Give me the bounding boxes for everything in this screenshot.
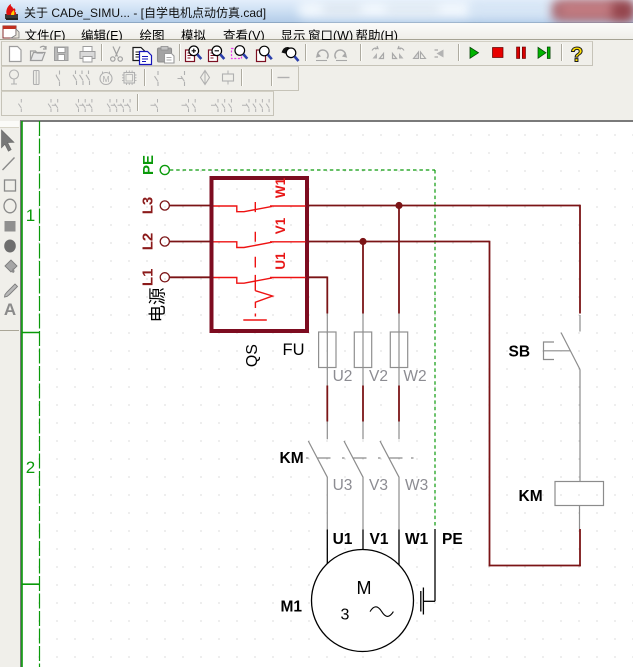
wire SB drop [579, 205, 581, 314]
wire coil branch drop [489, 241, 491, 567]
toolbar button: rotate right [393, 46, 405, 59]
palette: filled ellipse tool [4, 240, 16, 253]
wire fuse V to contact [362, 386, 364, 422]
wire L3 left [170, 205, 581, 567]
row3 contact icons [18, 99, 269, 112]
svg-text:PE: PE [442, 531, 463, 548]
svg-text:V1: V1 [273, 217, 288, 234]
svg-text:KM: KM [280, 450, 304, 467]
toolbar button: zoom page [257, 46, 272, 61]
motor PE wire [434, 529, 436, 601]
svg-text:KM: KM [519, 488, 543, 505]
toolbar button: run [470, 47, 479, 58]
node L3 terminal [160, 201, 169, 210]
fuse FU-V [362, 314, 364, 386]
toolbar button: save [55, 47, 69, 61]
svg-text:W1: W1 [405, 531, 429, 548]
palette: line tool [3, 158, 15, 171]
menu bar [0, 23, 633, 40]
toolbar button: open [31, 46, 47, 61]
contactor KM main contact W [380, 422, 399, 530]
svg-text:W1: W1 [273, 177, 288, 198]
svg-text:QS: QS [244, 344, 261, 367]
svg-text:U3: U3 [333, 477, 353, 494]
palette: ellipse tool [4, 199, 16, 213]
svg-text:L3: L3 [140, 197, 157, 215]
motor M1 body [312, 550, 414, 652]
pushbutton SB [544, 315, 581, 482]
toolbar button: rotate left [372, 46, 384, 59]
wire L2 right to KM-coil branch [308, 241, 490, 243]
motor wave symbol [370, 607, 393, 617]
toolbar button: redo [335, 50, 347, 60]
wire PE dashed vertical [434, 170, 436, 526]
toolbar button: paste [158, 47, 175, 64]
toolbar button: step [538, 47, 550, 59]
toolbar button: redraw [282, 47, 299, 61]
svg-text:2: 2 [26, 458, 35, 477]
toolbar button: flip h [414, 52, 426, 59]
palette: select arrow [2, 130, 15, 151]
toolbar button: print [80, 47, 95, 63]
breaker QS trip chevron [255, 291, 272, 317]
svg-text:L1: L1 [140, 269, 157, 287]
breaker QS bottom bar [243, 319, 266, 321]
breaker QS pole L2 [214, 242, 306, 248]
coil KM [555, 482, 604, 530]
wire L3 to fuse W [398, 206, 400, 314]
canvas [20, 120, 633, 667]
junction on L2 [359, 238, 366, 245]
svg-text:W3: W3 [405, 477, 428, 494]
title bar [0, 0, 633, 23]
svg-text:U2: U2 [333, 368, 353, 385]
toolbar button: zoom window [232, 46, 248, 59]
svg-text:V1: V1 [370, 531, 389, 548]
wire L1 left [170, 276, 211, 278]
motor M1 leads [312, 529, 436, 652]
svg-text:W2: W2 [403, 368, 426, 385]
svg-text:电源: 电源 [148, 288, 168, 323]
wire L2 left [170, 241, 211, 243]
toolbar button: flip v [435, 50, 444, 58]
fuse FU-W [398, 314, 400, 386]
contactor KM main contact U [306, 422, 414, 530]
contactor KM main contact V [344, 422, 363, 530]
left tool palette [0, 120, 20, 667]
toolbar button: copy [133, 48, 152, 65]
wire fuse U to contact [326, 386, 328, 422]
palette: fill tool [5, 260, 17, 273]
svg-text:U1: U1 [333, 531, 353, 548]
svg-text:V3: V3 [369, 477, 388, 494]
svg-text:FU: FU [283, 341, 305, 359]
breaker QS linkage dashed [254, 202, 256, 291]
wire coil bottom horizontal [489, 565, 581, 567]
pushbutton SB actuator [544, 342, 571, 360]
palette: rect tool [5, 180, 16, 191]
node L2 terminal [160, 237, 169, 246]
wire L1 to fuse U [308, 276, 328, 278]
junction on L3 [395, 202, 402, 209]
toolbar button: new [10, 47, 22, 62]
sheet frame [22, 121, 40, 667]
toolbar button: undo [316, 50, 328, 60]
svg-text:SB: SB [509, 344, 531, 361]
toolbar button: zoom in [186, 46, 202, 62]
svg-text:3: 3 [341, 607, 350, 624]
motor PE frame bars [422, 588, 424, 615]
node L1 terminal [160, 273, 169, 282]
svg-text:V2: V2 [369, 368, 388, 385]
palette: pencil tool [5, 284, 18, 297]
svg-text:M1: M1 [281, 598, 303, 615]
toolbar button: pause [517, 47, 526, 59]
palette: filled rect tool [5, 221, 16, 232]
svg-text:PE: PE [140, 155, 157, 175]
wire fuse W to contact [398, 386, 400, 422]
svg-text:1: 1 [26, 206, 35, 225]
toolbar button: zoom out [209, 46, 225, 62]
toolbar button: cut [111, 47, 123, 62]
toolbar button: stop [493, 48, 504, 58]
fuse FU-U [319, 314, 408, 386]
contactor KM linkage dashes [306, 457, 414, 459]
node PE terminal [160, 165, 169, 174]
breaker QS pole L1 [214, 278, 306, 284]
wire L3 right to SB branch [308, 205, 581, 207]
toolbar zone [0, 40, 633, 120]
svg-text:M: M [357, 578, 372, 598]
blurred area of title bar [298, 1, 473, 18]
wire coil bottom vertical [579, 529, 581, 566]
svg-text:U1: U1 [273, 252, 288, 270]
breaker QS pole L3 [214, 202, 306, 320]
wire L2 to fuse V [362, 242, 364, 314]
breaker QS box [212, 178, 308, 331]
row2 component icons [10, 70, 290, 86]
svg-text:L2: L2 [140, 233, 157, 251]
app icon [3, 2, 23, 22]
wire PE dashed horizontal [170, 169, 435, 171]
